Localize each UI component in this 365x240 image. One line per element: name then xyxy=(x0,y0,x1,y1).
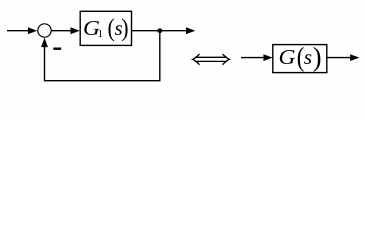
block G1 xyxy=(80,11,131,45)
block G xyxy=(273,45,327,73)
wire: G1 output to takeoff node xyxy=(132,30,161,32)
arrowhead into summing junction xyxy=(28,27,37,34)
arrowhead output of G block xyxy=(350,54,359,61)
svg-text:(: ( xyxy=(297,42,305,72)
node: takeoff point dot xyxy=(157,28,162,33)
svg-text:): ) xyxy=(313,42,322,73)
wire: feedback vertical drop from node xyxy=(159,31,161,82)
wire: summing junction to G1 block xyxy=(52,30,72,32)
wire: G block output xyxy=(327,57,351,59)
svg-text:s: s xyxy=(304,45,312,69)
svg-text:(: ( xyxy=(108,14,115,42)
arrowhead into G1 block xyxy=(71,27,80,34)
svg-text:G: G xyxy=(279,45,296,69)
summing junction circle xyxy=(38,24,51,37)
wire: feedback vertical up to summing junction xyxy=(44,46,46,81)
arrowhead into G block xyxy=(263,54,272,61)
arrowhead into summing junction bottom xyxy=(41,38,48,47)
equivalence symbol (Long Leftrightarrow) xyxy=(193,54,230,64)
wire: node to output arrow xyxy=(160,30,187,32)
svg-text:): ) xyxy=(121,14,128,42)
wire: input line R(s) xyxy=(7,30,29,32)
minus sign at feedback input xyxy=(53,48,61,50)
wire: input into G block xyxy=(241,57,265,59)
arrowhead output Y(s) xyxy=(186,27,195,34)
wire: feedback bottom horizontal xyxy=(45,80,161,82)
